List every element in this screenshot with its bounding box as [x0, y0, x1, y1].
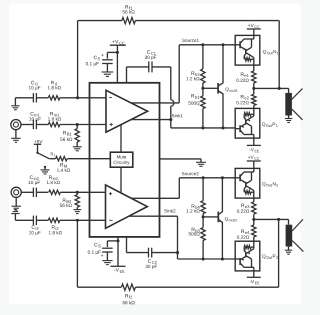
wire to C_S2 [107, 240, 118, 242]
switch S1 contact b [44, 166, 46, 168]
label +V_CC ch1 [248, 24, 259, 28]
node feedback tap ch1 [76, 96, 79, 99]
wire J1 to C_in1 [21, 124, 33, 126]
ground at J2 [15, 197, 17, 206]
label Q_mult2 [225, 217, 237, 221]
label R_b2 [192, 72, 200, 76]
label Q_OutP1 [262, 123, 278, 127]
label C_i2 [32, 225, 39, 229]
label R_b1 [191, 94, 199, 98]
wire R_f2 to right [135, 286, 278, 288]
resistor R_in1 [48, 122, 60, 126]
label C_S1 [94, 56, 100, 61]
capacitor C_i2 [32, 216, 34, 225]
node out2 feedback [277, 218, 280, 221]
ground at C_i1 input [14, 98, 16, 106]
wire base Qmult2 [203, 216, 218, 218]
label R_e3 [241, 204, 249, 208]
node sink1 rail Rb1 [201, 126, 204, 129]
resistor R_b1 [202, 88, 204, 96]
wire Q_OutN1 to R_e1 [253, 65, 255, 71]
node source1 Rb2 [201, 43, 204, 46]
transistor Q_OutP1 [235, 108, 260, 138]
wire sink1 rail [171, 127, 235, 129]
node sink1 [169, 118, 172, 121]
+5V supply [34, 140, 42, 143]
wire +5V to S1 [37, 144, 39, 152]
label C_S1 plus [101, 54, 103, 56]
wire source1 rail [179, 44, 235, 46]
label +V_CC pin [112, 40, 124, 44]
label Q_OutN1 [263, 50, 279, 54]
wire source2 rail [179, 177, 235, 179]
transistor Q_OutN2 [235, 168, 260, 198]
resistor R_B1 [76, 125, 78, 129]
capacitor C_S1 [102, 59, 113, 61]
label S1 [50, 152, 55, 156]
node R_B1 tap [76, 123, 79, 126]
power bar V_CC ch2 [247, 160, 261, 162]
label R_B2 [63, 198, 71, 202]
label Sink2 [164, 209, 175, 212]
wire feedback up ch1 [77, 21, 79, 98]
node out1 [252, 87, 255, 90]
label Source2 [182, 172, 199, 175]
label +V_CC ch2 [248, 156, 259, 160]
label Source1 [182, 39, 199, 42]
power bar V_CC pin [110, 44, 126, 46]
label R_f2 [125, 294, 132, 298]
wire C_C2 to sink2 [152, 252, 178, 254]
wire R_i1 to U1A minus [60, 97, 106, 99]
label R_in1 [50, 112, 59, 116]
wire feedback down ch2 [76, 220, 78, 287]
mute circuitry block [110, 152, 133, 167]
node C_S1 tap [116, 51, 119, 54]
label R_e1 [241, 73, 249, 77]
op-amp U1B inverting input mark [109, 219, 112, 221]
node R_B2 tap [76, 191, 79, 194]
wire feedback down to out1 [278, 21, 280, 89]
wire C_C1 to sink1 with hop [152, 66, 171, 68]
node sink2 rail Rb3 [202, 257, 205, 260]
power bar V_EE ch1 [247, 144, 261, 146]
capacitor C_i1 [32, 93, 34, 102]
label R_i2 [52, 225, 59, 229]
wire Q_OutP1 to V_EE [253, 138, 255, 145]
ground at speaker2 [288, 247, 290, 251]
ground at speaker1 [288, 116, 290, 119]
label C_S2 plus [101, 254, 103, 256]
transistor Q_mult2 [217, 212, 219, 223]
label R_b3 [192, 228, 200, 232]
mute circuitry text [117, 155, 126, 158]
wire sink2 down [177, 216, 179, 259]
label Q_OutN2 [262, 182, 278, 186]
wire R_in1 to U1A plus [60, 124, 106, 126]
transistor Q_OutN1 [235, 35, 260, 65]
input jack J1 [11, 120, 21, 130]
label C_C1 [147, 50, 156, 55]
op-amp U1B non-inverting input mark [109, 193, 112, 195]
op-amp U1A [106, 90, 148, 132]
power bar V_CC ch1 [247, 28, 261, 30]
wire R_e1 to out1 [253, 83, 255, 88]
wire sink2 from U1B [129, 215, 178, 217]
resistor R_i1 [48, 96, 60, 100]
wire R_in2 to U1B plus [60, 191, 105, 193]
wire sink1 from U1A [131, 119, 171, 121]
IC package box U1 [90, 83, 160, 237]
wire sink1 down [170, 120, 172, 128]
node sink2 rail Qmult2 emitter [221, 257, 224, 260]
node Qmult1 base [201, 87, 204, 90]
resistor R_b4 [202, 178, 204, 201]
label -V_EE ch1 [249, 148, 259, 152]
ground at C_i2 input [14, 214, 16, 221]
resistor R_in2 [49, 190, 61, 194]
label Q_OutP2 [262, 254, 278, 258]
wire R_f1 to right [135, 20, 279, 22]
label C_in1 [31, 112, 40, 116]
ground at R_B2 [73, 209, 81, 211]
wire comp2 pin [126, 237, 128, 253]
wire mute to U1B [120, 167, 122, 193]
wire V_CC pin into IC [116, 45, 118, 83]
resistor R_i2 [48, 218, 60, 222]
power bar V_EE ch2 [247, 276, 261, 278]
ground at S1 [44, 167, 46, 170]
op-amp U1A inverting input mark [109, 97, 112, 99]
wire R_i1 row left [15, 97, 33, 99]
label R_f1 [125, 5, 132, 9]
speaker ch2 [286, 225, 293, 247]
wire V_CC to Q_OutN1 [253, 29, 255, 35]
label Sink1 [172, 114, 183, 117]
wire R_i2 row left [15, 219, 33, 221]
wire to C_S1 [107, 51, 117, 53]
wire bottom to R_f2 [77, 286, 121, 288]
node feedback tap ch2 [76, 219, 79, 222]
ground at C_S1 [102, 71, 114, 73]
resistor R_e4 [253, 219, 255, 225]
wire C_in1 to R_in1 [37, 124, 49, 126]
resistor R_B2 [76, 192, 78, 194]
capacitor C_S2 [102, 247, 113, 249]
wire Q_OutN2 to R_e3 [253, 198, 255, 202]
ground at R_B1 [73, 146, 82, 148]
op-amp U1B [106, 185, 148, 228]
wire R_i2 to U1B minus [60, 219, 106, 221]
node source2 Qmult2 collector [221, 176, 224, 179]
resistor R_b3 [202, 217, 204, 228]
wire C_in2 to R_in2 [37, 191, 49, 193]
resistor R_M [56, 157, 68, 161]
wire feedback up to out2 [278, 219, 280, 287]
transistor Q_OutP2 [235, 241, 260, 271]
input jack J2 [11, 187, 21, 197]
label C_S2 [94, 243, 100, 248]
label -V_EE pin [114, 268, 124, 272]
wire GND pin [160, 158, 202, 160]
wire R_e3 to out2 [253, 214, 255, 219]
node out2 [252, 218, 255, 221]
node source1 Qmult1 collector [221, 43, 224, 46]
resistor R_f2 [121, 284, 135, 290]
ground at J1 [15, 130, 17, 139]
label R_e2 [241, 95, 249, 99]
wire C_S1 to ground [106, 64, 108, 73]
switch S1 arm [38, 153, 50, 159]
wire Q_OutP2 to V_EE [253, 271, 255, 277]
speaker ch1 [285, 93, 292, 116]
label Q_mult1 [225, 88, 237, 92]
resistor R_e3 [252, 202, 256, 214]
wire comp pin up [126, 67, 128, 83]
label C_in2 [30, 176, 39, 180]
wire V_CC to Q_OutN2 [253, 161, 255, 168]
node sink1 rail Qmult1 emitter [221, 126, 224, 129]
label R_B1 [63, 131, 71, 135]
power bar V_EE pin [111, 265, 126, 267]
wire J2 to C_in2 [21, 191, 33, 193]
node C_S2 tap [116, 239, 119, 242]
resistor R_e1 [252, 71, 256, 83]
wire top to R_f1 [78, 20, 122, 22]
wire source2 from U1B [131, 197, 179, 199]
wire source1 from U1A [131, 102, 179, 104]
label R_b4 [192, 204, 200, 208]
ground at C_S2 [102, 260, 112, 262]
capacitor C_in1 [32, 120, 34, 129]
switch S1 contact a [36, 152, 38, 154]
resistor R_b2 [202, 45, 204, 69]
wire C_i1 to R_i1 [37, 97, 49, 99]
label R_i1 [51, 81, 58, 85]
ground at GND pin [196, 161, 206, 163]
label C_C2 [148, 259, 157, 264]
label R_in2 [49, 176, 58, 180]
node out1 feedback [278, 87, 281, 90]
node source2 Rb4 [202, 176, 205, 179]
wire R_M to mute block [67, 158, 110, 160]
resistor R_f1 [122, 17, 136, 23]
wire base Qmult1 [203, 87, 218, 89]
wire out2 to speaker2 [254, 218, 289, 220]
label -V_EE ch2 [250, 280, 260, 284]
label R_e4 [241, 230, 249, 234]
wire C_S2 to ground [106, 252, 108, 261]
label R_M [60, 163, 67, 167]
capacitor C_in2 [32, 188, 34, 197]
resistor R_e2 [253, 88, 255, 94]
wire C_i2 to R_i2 [37, 219, 49, 221]
node Qmult2 base [202, 215, 205, 218]
label C_i1 [31, 81, 38, 85]
capacitor C_C2 [148, 248, 150, 258]
capacitor C_C1 [148, 61, 150, 72]
wire V_EE pin from IC [117, 237, 119, 266]
transistor Q_mult1 [217, 83, 219, 94]
op-amp U1A non-inverting input mark [110, 124, 113, 126]
wire out1 to speaker1 [254, 87, 289, 89]
node sink2 CC2 [176, 251, 179, 254]
wire mute to U1A [120, 125, 122, 152]
wire sink2 rail [178, 258, 236, 260]
wire S1 to R_M [49, 158, 55, 160]
